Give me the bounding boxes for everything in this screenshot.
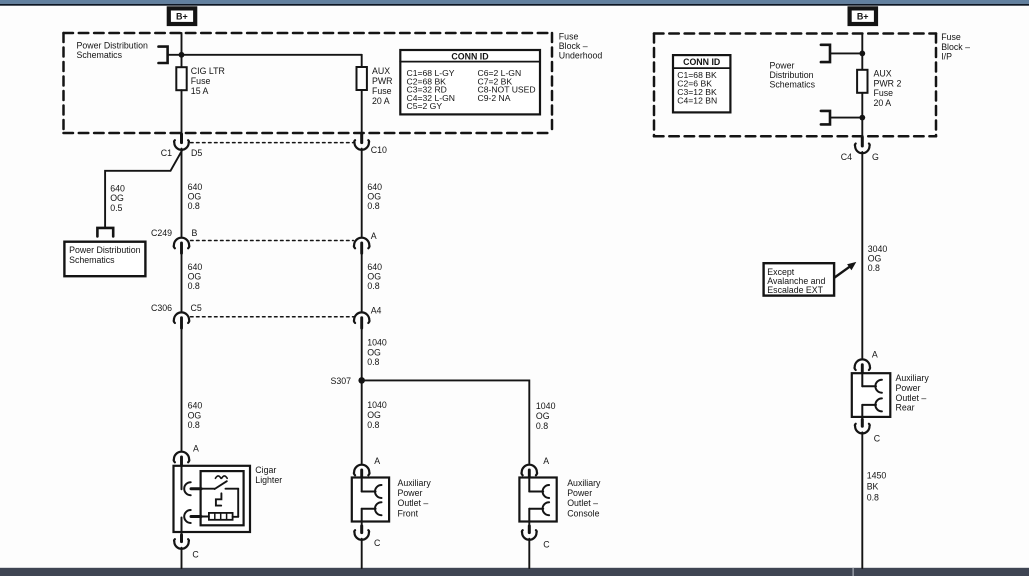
wire upper tap to bus — [830, 52, 862, 54]
svg-text:0.8: 0.8 — [188, 420, 200, 430]
wire stub rear C at box exit — [861, 420, 864, 427]
svg-text:Lighter: Lighter — [255, 475, 282, 485]
svg-text:Auxiliary: Auxiliary — [567, 478, 601, 488]
cigar lighter inner element box — [201, 471, 244, 525]
wire AUX fuse to connector C10 — [361, 90, 363, 142]
wire stub cigar C at box exit — [180, 535, 183, 542]
svg-text:AUX: AUX — [372, 66, 390, 76]
connector A4 (cap) — [354, 312, 370, 323]
switch fixed line — [226, 488, 239, 490]
svg-text:C1: C1 — [161, 148, 172, 158]
svg-text:A: A — [193, 444, 199, 454]
svg-text:0.8: 0.8 — [536, 421, 548, 431]
svg-text:Schematics: Schematics — [770, 80, 816, 90]
svg-text:1040: 1040 — [367, 400, 387, 410]
connector line row C249-A (dotted) — [191, 240, 354, 242]
wire stub front C at box exit — [360, 526, 363, 533]
cigar lighter pin A internal wire and contact — [181, 466, 183, 490]
wire stub console C at box exit — [528, 526, 531, 533]
svg-text:Distribution: Distribution — [770, 70, 814, 80]
pin C connector console outlet (cup) — [528, 522, 530, 532]
svg-text:0.8: 0.8 — [188, 281, 200, 291]
svg-text:15 A: 15 A — [191, 86, 209, 96]
svg-text:Power: Power — [567, 488, 592, 498]
fuse block underhood dashed border bottom — [64, 132, 553, 135]
connector line row C306-A4 (dotted) — [191, 316, 354, 318]
wire right side down — [237, 489, 239, 517]
svg-text:C5: C5 — [191, 303, 202, 313]
svg-text:0.8: 0.8 — [367, 420, 379, 430]
wire C10 to A — [361, 149, 363, 237]
svg-text:1040: 1040 — [367, 338, 387, 348]
svg-text:I/P: I/P — [941, 51, 952, 61]
bottom status bar — [0, 568, 1029, 576]
bracket tap to power distribution schematics — [159, 47, 168, 63]
svg-text:Schematics: Schematics — [77, 50, 123, 60]
fuse block underhood dashed border top — [64, 32, 553, 35]
svg-text:OG: OG — [367, 192, 381, 202]
wire A4 to splice S307 — [361, 328, 363, 380]
svg-text:B+: B+ — [176, 12, 188, 22]
svg-text:0.8: 0.8 — [367, 281, 379, 291]
fuse AUX PWR 2 20A — [857, 70, 867, 93]
wire bracket to bus — [168, 54, 362, 56]
fuse block I/P dashed border bottom — [654, 135, 936, 138]
wire front outlet to bar — [361, 539, 363, 568]
B+ power symbol (left) — [169, 8, 195, 24]
junction lower tap — [859, 115, 865, 121]
svg-text:C: C — [874, 433, 881, 443]
svg-text:S307: S307 — [330, 376, 351, 386]
wire A to A4 — [361, 253, 363, 311]
svg-text:B+: B+ — [857, 12, 869, 22]
cigar lighter pin C contact and wire — [201, 516, 209, 518]
wire stub C10 at fuse block exit — [360, 134, 363, 143]
svg-text:Fuse: Fuse — [372, 86, 392, 96]
B+ power symbol (right) — [850, 8, 876, 24]
svg-text:Block –: Block – — [941, 42, 970, 52]
svg-text:C4=12 BN: C4=12 BN — [677, 95, 717, 105]
fuse block I/P dashed border top — [654, 32, 936, 35]
svg-text:CIG LTR: CIG LTR — [191, 66, 225, 76]
svg-text:Cigar: Cigar — [255, 465, 276, 475]
wire AUX feed down to AUX PWR fuse — [361, 55, 363, 67]
svg-text:C9-2 NA: C9-2 NA — [478, 93, 511, 103]
wire C4 to rear outlet pin A — [861, 152, 863, 358]
component auxiliary power outlet console — [519, 478, 556, 522]
svg-text:640: 640 — [188, 262, 203, 272]
svg-text:Auxiliary: Auxiliary — [398, 478, 432, 488]
splice S307 — [358, 377, 365, 384]
pin A connector rear outlet (cap) — [854, 359, 870, 370]
wire C1 to C249 — [181, 149, 183, 237]
svg-text:1040: 1040 — [536, 401, 556, 411]
wire B+ down to CIG LTR fuse — [181, 33, 183, 67]
wire stub C4 at fuse block exit — [861, 137, 864, 146]
wire lower tap to bus — [830, 117, 862, 119]
svg-text:Outlet –: Outlet – — [398, 498, 429, 508]
svg-text:Fuse: Fuse — [874, 88, 894, 98]
wire cigar lighter to bar — [181, 548, 183, 568]
svg-text:0.5: 0.5 — [110, 203, 122, 213]
fuse CIG LTR 15A — [176, 67, 186, 90]
branch diagonal from C1 to power distribution — [105, 151, 182, 227]
connector C306 C5 (cap) — [174, 312, 190, 323]
svg-text:OG: OG — [868, 254, 882, 264]
svg-text:Schematics: Schematics — [69, 255, 115, 265]
svg-text:Power: Power — [770, 60, 795, 70]
svg-text:OG: OG — [188, 410, 202, 420]
pin A connector cigar lighter (cap) — [174, 452, 190, 463]
off-page fork symbol — [97, 228, 113, 237]
connector line row C1-C10 (dotted) — [191, 142, 354, 144]
svg-text:AUX: AUX — [874, 69, 892, 79]
svg-text:B: B — [192, 228, 198, 238]
svg-text:Rear: Rear — [896, 402, 915, 412]
box Power Distribution Schematics — [64, 242, 145, 277]
svg-text:640: 640 — [367, 262, 382, 272]
svg-text:OG: OG — [367, 347, 381, 357]
svg-text:Front: Front — [398, 508, 419, 518]
svg-text:3040: 3040 — [868, 244, 888, 254]
svg-text:CONN ID: CONN ID — [683, 57, 720, 67]
svg-text:G: G — [872, 152, 879, 162]
svg-text:A: A — [374, 456, 380, 466]
svg-text:CONN ID: CONN ID — [451, 51, 488, 61]
bottom bar divider line — [852, 568, 854, 576]
svg-text:640: 640 — [188, 182, 203, 192]
wire C306 to cigar lighter pin A — [181, 328, 183, 450]
svg-text:OG: OG — [367, 410, 381, 420]
svg-text:Power Distribution: Power Distribution — [77, 41, 148, 51]
lower bracket tap — [821, 111, 830, 125]
svg-text:D5: D5 — [191, 148, 202, 158]
callout arrow — [835, 267, 850, 278]
svg-text:OG: OG — [110, 193, 124, 203]
svg-text:A: A — [371, 231, 377, 241]
svg-text:20 A: 20 A — [372, 96, 390, 106]
svg-text:A: A — [872, 349, 878, 359]
svg-text:Underhood: Underhood — [559, 50, 603, 60]
svg-text:Console: Console — [567, 508, 599, 518]
svg-text:Fuse: Fuse — [941, 32, 961, 42]
fuse block underhood dashed border right — [551, 33, 554, 133]
component cigar lighter outer box — [174, 466, 251, 532]
svg-text:Outlet –: Outlet – — [567, 498, 598, 508]
connector C1 D5 (cup) — [174, 140, 189, 150]
svg-text:0.8: 0.8 — [868, 263, 880, 273]
svg-text:0.8: 0.8 — [188, 201, 200, 211]
svg-text:C: C — [374, 538, 381, 548]
callout box Except Avalanche and Escalade EXT — [764, 263, 835, 295]
svg-text:A4: A4 — [371, 305, 382, 315]
connector A (cap) — [354, 238, 370, 249]
svg-text:Fuse: Fuse — [191, 76, 211, 86]
svg-text:C249: C249 — [151, 228, 172, 238]
thermal marks — [215, 476, 227, 478]
wire S307 down to front outlet pin A — [361, 380, 363, 463]
component auxiliary power outlet rear — [852, 373, 891, 417]
wire B+ down to fuse — [861, 34, 863, 70]
connector C10 (cup) — [354, 140, 369, 150]
junction at CIG LTR feed — [179, 52, 185, 58]
svg-text:C306: C306 — [151, 303, 172, 313]
wire S307 branch to console — [362, 380, 530, 463]
svg-text:0.8: 0.8 — [367, 201, 379, 211]
svg-text:BK: BK — [867, 481, 879, 491]
svg-text:Escalade EXT: Escalade EXT — [767, 285, 823, 295]
fuse block underhood dashed border left — [62, 33, 65, 133]
top toolbar strip — [0, 0, 1029, 4]
wire stub C1 at fuse block exit — [180, 134, 183, 143]
svg-text:640: 640 — [110, 183, 125, 193]
wire C249 to C306 — [181, 253, 183, 311]
wire fuse to connector C4 — [861, 93, 863, 145]
svg-text:OG: OG — [367, 272, 381, 282]
switch blade — [215, 481, 227, 489]
svg-text:Power: Power — [896, 383, 921, 393]
upper bracket tap — [821, 45, 830, 62]
fuse block I/P dashed border left — [653, 34, 656, 137]
svg-text:1450: 1450 — [867, 470, 887, 480]
svg-text:Power Distribution: Power Distribution — [69, 245, 140, 255]
bimetal step — [216, 493, 222, 505]
pin A connector console outlet (cap) — [521, 465, 537, 476]
junction upper tap — [859, 51, 865, 57]
svg-text:C10: C10 — [371, 145, 387, 155]
svg-text:C5=2 GY: C5=2 GY — [407, 101, 443, 111]
svg-text:OG: OG — [188, 192, 202, 202]
CONN ID table (I/P) — [673, 55, 730, 112]
wire CIG fuse to connector C1 — [181, 90, 183, 141]
svg-text:640: 640 — [188, 401, 203, 411]
svg-text:A: A — [543, 456, 549, 466]
svg-text:Auxiliary: Auxiliary — [896, 373, 930, 383]
svg-text:C: C — [192, 550, 199, 560]
component auxiliary power outlet front — [352, 478, 389, 522]
wire console outlet to bar — [528, 539, 530, 568]
fuse AUX PWR 20A — [357, 67, 367, 90]
fuse block I/P dashed border right — [935, 34, 938, 137]
pin A connector front outlet (cap) — [354, 465, 370, 476]
pin C connector cigar lighter (cup) — [174, 539, 189, 549]
pin C connector front outlet (cup) — [361, 522, 363, 532]
svg-text:20 A: 20 A — [874, 98, 892, 108]
svg-text:Outlet –: Outlet – — [896, 393, 927, 403]
svg-text:OG: OG — [188, 272, 202, 282]
svg-text:0.8: 0.8 — [867, 492, 879, 502]
heating element — [209, 513, 233, 520]
svg-text:PWR 2: PWR 2 — [874, 78, 902, 88]
svg-text:C: C — [543, 539, 550, 549]
connector C249 B (cap) — [174, 238, 190, 249]
svg-text:0.8: 0.8 — [367, 357, 379, 367]
svg-text:Power: Power — [398, 488, 423, 498]
svg-text:C4: C4 — [841, 152, 852, 162]
svg-text:PWR: PWR — [372, 76, 393, 86]
wire rear outlet to bar — [861, 432, 863, 568]
connector C4 G (cup) — [855, 144, 870, 154]
svg-text:640: 640 — [367, 182, 382, 192]
svg-text:OG: OG — [536, 411, 550, 421]
pin C connector rear outlet (cup) — [861, 417, 863, 425]
CONN ID table (underhood) — [400, 50, 540, 114]
